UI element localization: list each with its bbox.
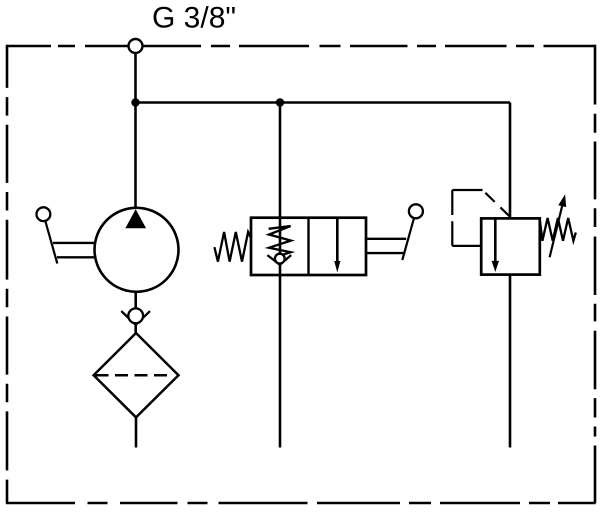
node junction dot at valve branch (276, 98, 284, 106)
relief valve RV1 body (481, 218, 540, 274)
enclosure boundary bottom edge (dashed) (6, 502, 596, 505)
filter element dashed line (96, 374, 171, 377)
valve V1 lever knob (409, 204, 423, 218)
wire: main horizontal pressure line (136, 101, 511, 104)
valve V1 position divider (307, 218, 309, 275)
svg-text:G 3/8": G 3/8" (152, 2, 236, 35)
wire: check valve to filter (134, 324, 137, 334)
relief valve flow arrow (494, 218, 497, 262)
relief valve adjustment arrow (550, 203, 563, 258)
relief valve spring (right) (540, 218, 576, 241)
wire: filter to tank (135, 417, 138, 447)
filter F1 diamond (94, 333, 179, 417)
valve V1 lever lower link (366, 252, 405, 254)
pump lever upper link (53, 242, 95, 244)
valve V1 internal spring above check (269, 226, 291, 256)
valve V1 check ball (275, 254, 285, 264)
check valve ball (128, 308, 143, 323)
check valve seat (V) below pump (121, 311, 150, 325)
enclosure boundary left edge (dashed) (6, 45, 9, 504)
port G 3/8" (open circle on boundary) (129, 39, 143, 53)
pump lever lower link (57, 256, 94, 258)
valve V1 lever upper link (366, 238, 406, 240)
wire: feed to pressure relief valve (509, 103, 512, 219)
wire: relief valve outlet to tank (509, 275, 512, 448)
relief valve pilot line top horizontal (452, 189, 482, 191)
wire: pump outlet to check valve (134, 291, 137, 310)
relief valve pilot line diagonal (dashed) (483, 190, 511, 217)
valve V1 body (2-position) (251, 218, 366, 275)
node junction dot at pump riser (131, 98, 139, 106)
valve V1 flow arrow (open position) (336, 218, 339, 263)
valve V1 return spring (left) (214, 232, 251, 262)
wire: branch down to check/relief valve block (279, 103, 282, 448)
valve V1 check seat (V) (267, 255, 291, 265)
wire: port down to pump junction (134, 49, 137, 208)
enclosure boundary top edge (dashed) (7, 45, 596, 48)
relief valve pilot line left vertical (dashed) (451, 190, 453, 246)
valve V1 lever shaft (402, 218, 414, 260)
pump flow direction triangle (filled, pointing up) (125, 209, 146, 228)
hand pump body circle (95, 208, 179, 292)
enclosure boundary right edge (dashed) (594, 45, 597, 504)
relief valve pilot line bottom horizontal (452, 245, 481, 247)
pump lever knob (37, 207, 51, 221)
pump lever shaft (45, 221, 57, 264)
